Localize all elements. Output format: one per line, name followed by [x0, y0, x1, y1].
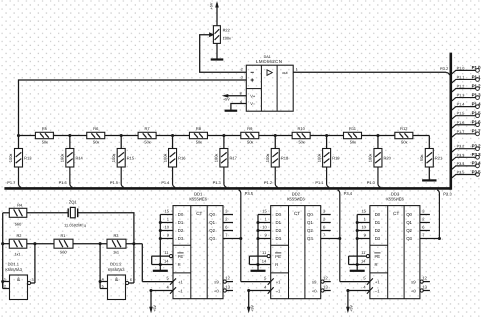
- node junction: [1, 242, 4, 245]
- wire ladder rail: [19, 135, 430, 137]
- svg-text:3: 3: [241, 75, 243, 79]
- svg-text:R9: R9: [247, 126, 253, 131]
- resistor R4 560: [9, 208, 27, 217]
- power +5V (DD3 -1 input): [346, 289, 349, 292]
- connector pin P1.6: [452, 125, 476, 128]
- svg-text:P3.2: P3.2: [472, 144, 482, 149]
- svg-text:R18: R18: [281, 155, 289, 160]
- svg-text:R13: R13: [24, 155, 32, 160]
- svg-text:50к: 50к: [419, 155, 424, 161]
- power +5V (op-amp V+ pin 8): [224, 95, 247, 97]
- svg-text:1: 1: [4, 277, 6, 281]
- svg-text:Q1: Q1: [209, 220, 215, 225]
- resistor R18 100k: [271, 149, 279, 168]
- ground (ladder terminator R21): [422, 179, 436, 181]
- svg-text:R10: R10: [297, 126, 305, 131]
- svg-text:D1: D1: [178, 220, 184, 225]
- svg-text:CT: CT: [393, 211, 399, 216]
- svg-text:V+: V+: [250, 93, 256, 98]
- svg-text:P1.2: P1.2: [472, 83, 482, 88]
- wire ZQ1 to DD1.2 output node: [78, 213, 134, 244]
- svg-text:DD1.1: DD1.1: [8, 261, 20, 266]
- svg-text:R16: R16: [178, 155, 186, 160]
- svg-text:R4: R4: [17, 202, 23, 207]
- wire DD2 D-input tie to ground: [257, 215, 259, 265]
- node junction: [132, 242, 135, 245]
- svg-text:100к: 100к: [214, 154, 219, 163]
- svg-text:P3.4: P3.4: [344, 191, 353, 196]
- svg-text:Q3: Q3: [209, 236, 215, 241]
- wire DD1.1 output riser: [34, 244, 36, 283]
- resistor R21 50k: [425, 149, 433, 168]
- svg-text:P1.2: P1.2: [264, 180, 272, 185]
- connector pin P3.4: [452, 166, 476, 169]
- wire: [172, 136, 174, 149]
- svg-text:CT: CT: [294, 211, 300, 216]
- wire R17 to bus, net P1.3: [224, 167, 227, 187]
- svg-text:+5V: +5V: [251, 304, 255, 311]
- wire R3 to DD1.2 output node and DD1 clock riser: [126, 243, 142, 245]
- wire R2 to R1: [27, 243, 55, 245]
- svg-text:12: 12: [422, 276, 427, 281]
- svg-text:P3.3: P3.3: [443, 191, 452, 196]
- svg-text:50к: 50к: [196, 140, 202, 145]
- wire: [274, 136, 276, 149]
- resistor R5 50k: [35, 132, 53, 138]
- resistor R8 50k: [189, 132, 207, 138]
- ground (under R22): [216, 43, 218, 59]
- svg-text:P1.7: P1.7: [472, 129, 482, 134]
- svg-text:10: 10: [361, 224, 366, 229]
- svg-text:P1.6: P1.6: [457, 121, 465, 125]
- svg-text:Q1: Q1: [406, 220, 412, 225]
- ground (op-amp V-): [225, 110, 238, 112]
- svg-text:P1.4: P1.4: [472, 101, 482, 106]
- wire R22 wiper to op-amp inverting input: [200, 35, 247, 73]
- wire DD3 Q3 to bus and next counter clock: [437, 190, 439, 239]
- svg-text:P1.7: P1.7: [457, 130, 465, 134]
- trimmer resistor R22 100k: [213, 26, 220, 44]
- svg-text:≥9: ≥9: [312, 279, 317, 284]
- svg-text:50к: 50к: [247, 140, 253, 145]
- svg-text:R21: R21: [435, 155, 443, 160]
- resistor R10 50k: [292, 132, 310, 138]
- svg-text:8: 8: [240, 91, 242, 95]
- wire R4 to ZQ1: [27, 212, 69, 214]
- svg-text:Q1: Q1: [307, 220, 313, 225]
- ground (DD2 inputs): [257, 265, 259, 271]
- svg-text:P3.4: P3.4: [457, 162, 465, 166]
- resistor R1 560: [54, 239, 73, 248]
- wire: [151, 256, 153, 264]
- wire DD1 D-input tie to ground: [159, 215, 161, 265]
- svg-text:<0: <0: [411, 288, 416, 293]
- svg-text:P1.0: P1.0: [457, 66, 465, 70]
- svg-text:+5V: +5V: [210, 2, 214, 9]
- svg-text:R: R: [375, 262, 378, 267]
- svg-text:D2: D2: [276, 228, 282, 233]
- svg-text:P1.4: P1.4: [457, 103, 465, 107]
- svg-text:14: 14: [262, 258, 267, 263]
- resistor R12 50k: [395, 132, 413, 138]
- svg-text:P3.2: P3.2: [457, 145, 465, 149]
- svg-text:К555ЛА3: К555ЛА3: [108, 267, 125, 272]
- svg-text:P1.5: P1.5: [110, 180, 118, 185]
- svg-text:Q3: Q3: [307, 236, 313, 241]
- svg-text:P3.5: P3.5: [245, 191, 254, 196]
- svg-text:D2: D2: [178, 228, 184, 233]
- wire op-amp V- pin 4 to ground: [231, 104, 246, 110]
- svg-text:15: 15: [262, 208, 267, 213]
- svg-text:PE: PE: [178, 254, 184, 259]
- wire: [18, 136, 20, 149]
- svg-text:R11: R11: [349, 126, 357, 131]
- svg-text:1к1: 1к1: [113, 249, 119, 254]
- svg-text:P1.1: P1.1: [457, 75, 465, 79]
- svg-text:P3.2: P3.2: [440, 66, 448, 71]
- svg-text:≥9: ≥9: [411, 279, 416, 284]
- svg-text:100к: 100к: [60, 154, 65, 163]
- svg-text:1к1: 1к1: [14, 251, 20, 256]
- svg-text:LMC662CN: LMC662CN: [256, 59, 282, 64]
- svg-text:Q0: Q0: [406, 212, 412, 217]
- wire: [223, 136, 225, 149]
- svg-text:P1.1: P1.1: [472, 74, 482, 79]
- DD1.1 input pin 2: [3, 288, 10, 290]
- wire DD1.1 inputs tie: [2, 282, 4, 289]
- svg-text:5: 5: [102, 284, 104, 288]
- connector pin P1.3: [452, 98, 476, 101]
- svg-text:10: 10: [165, 224, 170, 229]
- svg-text:PE: PE: [275, 254, 281, 259]
- svg-text:P3.5: P3.5: [472, 169, 482, 174]
- svg-text:P3.4: P3.4: [472, 161, 482, 166]
- bus vertical (to connector): [449, 53, 452, 190]
- connector pin P1.4: [452, 107, 476, 110]
- svg-text:R5: R5: [42, 126, 48, 131]
- wire DD1.2 output riser: [133, 244, 135, 283]
- svg-text:11.0592МГц: 11.0592МГц: [64, 224, 87, 228]
- power +5V (R22 top): [216, 3, 218, 26]
- svg-text:D3: D3: [375, 236, 381, 241]
- svg-text:50к: 50к: [93, 140, 99, 145]
- wire: [377, 136, 379, 149]
- svg-text:13: 13: [422, 285, 427, 290]
- svg-text:DD1.2: DD1.2: [110, 261, 122, 266]
- svg-text:1: 1: [296, 68, 298, 72]
- svg-text:D0: D0: [178, 212, 184, 217]
- resistor R13 100k: [15, 149, 23, 168]
- svg-text:560: 560: [60, 249, 67, 254]
- svg-text:12: 12: [323, 276, 328, 281]
- svg-text:50к: 50к: [42, 140, 48, 145]
- svg-text:R14: R14: [75, 155, 83, 160]
- svg-text:P1.6: P1.6: [59, 180, 67, 185]
- svg-text:P1.1: P1.1: [315, 180, 323, 185]
- svg-text:R1: R1: [61, 233, 66, 238]
- svg-text:+5V: +5V: [223, 97, 230, 101]
- svg-text:Q0: Q0: [307, 212, 313, 217]
- svg-text:Q2: Q2: [307, 228, 313, 233]
- DD1.2 output pin 6: [126, 281, 129, 284]
- svg-text:4: 4: [102, 277, 104, 281]
- svg-text:P3.5: P3.5: [457, 171, 465, 175]
- wire R20 to bus, net P1.0: [378, 167, 381, 187]
- DD1.1 output pin 3: [28, 281, 31, 284]
- svg-text:100к: 100к: [316, 154, 321, 163]
- node junction (DD1.2 input net): [99, 242, 102, 245]
- resistor R6 50k: [87, 132, 105, 138]
- svg-text:+1: +1: [178, 279, 183, 284]
- wire R16 to bus, net P1.4: [173, 167, 176, 187]
- svg-text:12: 12: [225, 276, 230, 281]
- svg-text:Q2: Q2: [209, 228, 215, 233]
- svg-text:D0: D0: [375, 212, 381, 217]
- svg-text:P1.5: P1.5: [457, 112, 465, 116]
- svg-text:D2: D2: [375, 228, 381, 233]
- connector pin P1.5: [452, 116, 476, 119]
- svg-text:P1.3: P1.3: [472, 92, 482, 97]
- svg-text:Q2: Q2: [406, 228, 412, 233]
- svg-text:P1.0: P1.0: [367, 180, 376, 185]
- node junction (DD1.1 output net): [33, 242, 36, 245]
- svg-text:10: 10: [262, 224, 267, 229]
- svg-text:15: 15: [361, 208, 366, 213]
- svg-text:50к: 50к: [144, 140, 150, 145]
- connector pin P1.1: [452, 79, 476, 82]
- svg-text:ZQ1: ZQ1: [69, 200, 78, 205]
- DD1.2 input pin 5: [100, 288, 107, 290]
- connector pin P1.0: [452, 70, 476, 73]
- wire: [326, 136, 328, 149]
- svg-text:R15: R15: [127, 155, 135, 160]
- svg-text:P1.5: P1.5: [472, 111, 482, 116]
- svg-text:–1: –1: [375, 288, 380, 293]
- svg-text:P1.3: P1.3: [213, 180, 221, 185]
- node junctions on ladder rail: [17, 134, 20, 137]
- svg-text:К555ИЕ6: К555ИЕ6: [386, 196, 404, 201]
- svg-text:P1.2: P1.2: [457, 85, 465, 89]
- svg-text:100к: 100к: [265, 154, 270, 163]
- resistor R19 100k: [323, 149, 331, 168]
- wire DD2 Q3 to bus and next counter clock: [338, 190, 340, 282]
- resistor R20 100k: [374, 149, 382, 168]
- svg-text:D0: D0: [276, 212, 282, 217]
- wire R19 to bus, net P1.1: [327, 167, 330, 187]
- svg-text:К555ИЕ6: К555ИЕ6: [287, 196, 305, 201]
- connector pin P3.2: [452, 149, 476, 152]
- wire left rail (DD1.1 input): [2, 213, 4, 289]
- svg-text:6: 6: [130, 278, 132, 282]
- svg-text:К555ИЕ6: К555ИЕ6: [189, 196, 207, 201]
- svg-text:D1: D1: [276, 220, 282, 225]
- svg-text:R: R: [275, 262, 278, 267]
- svg-text:13: 13: [323, 285, 328, 290]
- svg-text:100к: 100к: [8, 154, 13, 163]
- svg-text:100к: 100к: [368, 154, 373, 163]
- connector pin P3.5: [452, 175, 476, 178]
- wire DD1 Q3 to bus and next counter clock: [239, 190, 241, 282]
- svg-text:100к: 100к: [111, 154, 116, 163]
- svg-text:+1: +1: [276, 279, 281, 284]
- svg-text:≥9: ≥9: [214, 279, 219, 284]
- svg-text:<0: <0: [214, 288, 219, 293]
- wire DD3 D-input tie to ground: [356, 215, 358, 265]
- svg-text:D3: D3: [276, 236, 282, 241]
- svg-text:PE: PE: [375, 254, 381, 259]
- connector pin P1.2: [452, 89, 476, 92]
- wire ladder output to op-amp non-inverting input: [19, 80, 247, 136]
- resistor R2 1k1: [9, 239, 27, 248]
- resistor R3 1k1: [107, 239, 126, 248]
- wire R18 to bus, net P1.2: [275, 167, 278, 187]
- svg-text:R2: R2: [17, 233, 22, 238]
- svg-text:+5V: +5V: [153, 304, 157, 311]
- connector pin P1.7: [452, 134, 476, 137]
- wire R1 to R3: [73, 243, 107, 245]
- svg-text:Q0: Q0: [209, 212, 215, 217]
- svg-text:100к: 100к: [162, 154, 167, 163]
- resistor R15 100k: [117, 149, 125, 168]
- wire DD1.2 inputs tie: [99, 282, 101, 289]
- svg-text:50к: 50к: [298, 140, 304, 145]
- svg-text:P1.4: P1.4: [161, 180, 170, 185]
- svg-text:R19: R19: [332, 155, 340, 160]
- svg-text:R8: R8: [196, 126, 202, 131]
- svg-text:100к: 100к: [223, 36, 231, 41]
- wire R13 to bus, net P1.7: [19, 167, 22, 187]
- resistor R16 100k: [169, 149, 177, 168]
- bus horizontal: [4, 187, 450, 190]
- wire: [69, 136, 71, 149]
- svg-text:50к: 50к: [350, 140, 356, 145]
- wire R14 to bus, net P1.6: [70, 167, 73, 187]
- wire: [428, 136, 430, 149]
- svg-text:R: R: [178, 262, 181, 267]
- svg-text:R6: R6: [93, 126, 99, 131]
- svg-text:13: 13: [225, 285, 230, 290]
- svg-text:14: 14: [164, 258, 169, 263]
- svg-text:DA1: DA1: [264, 55, 271, 59]
- wire op-amp output to bus, net P3.2: [293, 71, 446, 73]
- wire riser to DD1 +1 input: [141, 244, 143, 282]
- resistor R14 100k: [66, 149, 74, 168]
- svg-text:R17: R17: [230, 155, 238, 160]
- svg-text:D1: D1: [375, 220, 381, 225]
- svg-text:R12: R12: [400, 126, 408, 131]
- svg-text:<0: <0: [312, 288, 317, 293]
- svg-text:560: 560: [15, 222, 22, 227]
- ground (DD1 inputs): [159, 265, 161, 271]
- svg-text:D3: D3: [178, 236, 184, 241]
- svg-text:P3.3: P3.3: [472, 152, 482, 157]
- resistor R11 50k: [344, 132, 362, 138]
- resistor R9 50k: [241, 132, 259, 138]
- power +5V (DD2 -1 input): [247, 289, 250, 292]
- svg-text:P1.3: P1.3: [457, 94, 465, 98]
- svg-text:CT: CT: [196, 211, 202, 216]
- resistor R7 50k: [138, 132, 156, 138]
- svg-text:P1.7: P1.7: [7, 180, 15, 185]
- svg-text:15: 15: [165, 208, 170, 213]
- svg-text:–1: –1: [178, 288, 183, 293]
- svg-text:2: 2: [241, 68, 243, 72]
- svg-text:14: 14: [361, 258, 366, 263]
- svg-text:+1: +1: [375, 279, 380, 284]
- svg-text:Q3: Q3: [406, 236, 412, 241]
- svg-text:P1.0: P1.0: [472, 65, 482, 70]
- svg-text:R20: R20: [384, 155, 392, 160]
- svg-text:–1: –1: [276, 288, 281, 293]
- wire: [248, 256, 250, 264]
- svg-text:R3: R3: [114, 233, 119, 238]
- power +5V (DD1 -1 input): [149, 289, 152, 292]
- svg-text:50к: 50к: [401, 140, 407, 145]
- DD1.1 input pin 1: [3, 281, 10, 283]
- wire: [120, 136, 122, 149]
- svg-text:К555ЛА3: К555ЛА3: [5, 267, 22, 272]
- svg-text:V–: V–: [250, 101, 256, 106]
- ground (DD3 inputs): [356, 265, 358, 271]
- wire: [348, 256, 350, 264]
- connector pin P3.3: [452, 157, 476, 160]
- svg-text:R7: R7: [145, 126, 151, 131]
- resistor R17 100k: [220, 149, 228, 168]
- svg-text:3: 3: [31, 278, 33, 282]
- wire R15 to bus, net P1.5: [121, 167, 124, 187]
- svg-text:P1.6: P1.6: [472, 120, 482, 125]
- svg-text:+5V: +5V: [350, 304, 354, 311]
- svg-text:R22: R22: [223, 27, 230, 32]
- wire: [428, 167, 430, 180]
- svg-text:2: 2: [4, 284, 6, 288]
- svg-text:P3.3: P3.3: [457, 153, 465, 157]
- DD1.2 input pin 4: [100, 281, 107, 283]
